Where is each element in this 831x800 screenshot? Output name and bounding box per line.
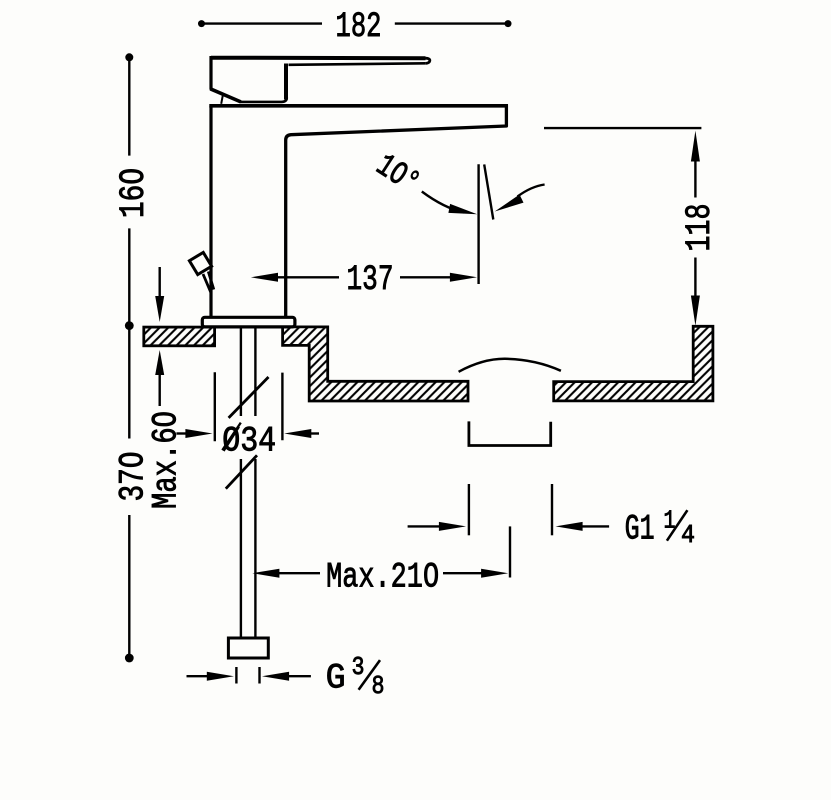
- dimension 118 upper arrowhead (up): [691, 131, 700, 162]
- svg-text:3: 3: [352, 652, 365, 682]
- svg-text:4: 4: [681, 520, 695, 550]
- Max.210 right tick: [509, 526, 511, 577]
- dimension 160/370 shared dot: [125, 321, 134, 330]
- G 3/8 right arrow tail: [287, 675, 311, 677]
- supply pipe upper section: [241, 327, 256, 416]
- pop-up rod: [203, 272, 214, 293]
- waste pipe U outline: [469, 421, 551, 445]
- diameter 34 right arrowhead (left): [284, 429, 311, 438]
- diameter 34 left extension line: [214, 372, 216, 441]
- svg-text:8: 8: [372, 671, 385, 701]
- lever left edge: [209, 56, 212, 90]
- arrow on arc pointing right: [448, 204, 477, 214]
- dimension 137 left arrowhead: [251, 273, 278, 282]
- diameter 34 left arrow tail: [176, 432, 188, 434]
- G1 1/4 right arrow tail: [581, 525, 609, 527]
- spout right edge and underside: [286, 104, 507, 317]
- svg-text:182: 182: [336, 7, 382, 47]
- svg-text:118: 118: [680, 204, 720, 252]
- diameter 34 right extension line: [281, 373, 283, 441]
- svg-text:Ø34: Ø34: [222, 422, 276, 462]
- Max.210 left arrowhead (left): [252, 569, 279, 578]
- right leader curve: [518, 185, 545, 197]
- G1 1/4 left tick: [468, 484, 470, 535]
- dimension 160 line: [128, 57, 130, 325]
- Max.210 line: [277, 572, 482, 574]
- Max.60 lower arrowhead (up): [155, 350, 164, 375]
- dimension 118 line: [694, 158, 696, 297]
- dimension 137 line: [276, 276, 450, 278]
- G1 1/4 text: [625, 505, 695, 550]
- dimension 118 extension line from spout: [544, 127, 701, 129]
- Max.60 upper arrowhead (down): [155, 296, 164, 322]
- G 3/8 right arrowhead (left): [262, 672, 289, 681]
- dimension 160 top dot: [125, 53, 133, 61]
- drain arc over waste hole: [459, 359, 561, 372]
- lever lower-left diagonal: [210, 89, 241, 102]
- G1 1/4 left arrow tail: [408, 525, 440, 527]
- svg-text:Max.21O: Max.21O: [326, 558, 439, 598]
- dimension 182 left dot: [198, 20, 205, 27]
- pipe break slash lower: [226, 455, 257, 488]
- lever handle top: [211, 56, 426, 61]
- faucet base plate: [202, 317, 295, 327]
- Max.210 right arrowhead (right): [481, 569, 508, 578]
- G1 1/4 right tick: [551, 484, 553, 535]
- supply hose end fitting: [228, 638, 268, 658]
- pipe break slash upper: [229, 377, 269, 418]
- G1 1/4 right arrowhead (left): [556, 522, 583, 531]
- faucet body top line: [209, 104, 508, 108]
- diameter 34 left arrowhead (right): [185, 429, 212, 438]
- counter slab left (hatched): [144, 327, 215, 346]
- aerator stream vertical line: [477, 164, 479, 284]
- dimension 370 bottom dot: [125, 654, 134, 663]
- G1 1/4 left arrowhead (right): [439, 522, 466, 531]
- G 3/8 right tick: [258, 667, 260, 684]
- faucet body left edge: [209, 106, 212, 318]
- svg-text:G1: G1: [625, 510, 655, 550]
- G 3/8 left arrowhead (right): [207, 672, 234, 681]
- 10 degree arc leader: [422, 192, 464, 213]
- svg-text:Max.6O: Max.6O: [147, 411, 187, 509]
- dimension 182 line: [202, 22, 509, 24]
- lever underside line: [289, 63, 426, 65]
- Max.60 upper arrow line: [158, 267, 160, 297]
- svg-text:16O: 16O: [114, 168, 154, 218]
- G 3/8 left tick: [235, 667, 237, 684]
- basin cross-section far right (hatched L profile): [554, 326, 713, 401]
- arrow on right leader pointing lower-left: [495, 195, 524, 212]
- supply pipe lower section: [241, 459, 256, 639]
- basin cross-section right of faucet (hatched Z profile): [283, 327, 468, 401]
- lever small tick at cartridge gap: [221, 95, 223, 104]
- pop-up knob: [189, 252, 211, 274]
- lever front face: [284, 64, 288, 100]
- aerator stream tilted line (10 deg): [484, 164, 493, 219]
- dimension 118 lower arrowhead (down): [691, 296, 700, 326]
- G 3/8 text: [326, 652, 385, 701]
- lever front corner and bottom: [240, 98, 287, 102]
- lever tip: [426, 58, 430, 63]
- dimension 182 right dot: [505, 20, 512, 27]
- G 3/8 left arrow tail: [187, 675, 210, 677]
- svg-text:137: 137: [347, 260, 394, 300]
- diameter 34 right arrow tail: [308, 432, 319, 434]
- dimension 137 right arrowhead: [450, 273, 477, 282]
- Max.60 lower arrow line: [158, 374, 160, 406]
- dimension 370 line: [128, 326, 130, 658]
- svg-text:G: G: [326, 658, 346, 698]
